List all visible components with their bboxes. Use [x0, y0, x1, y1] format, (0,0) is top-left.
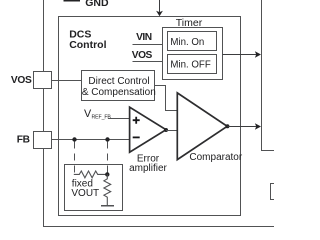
svg-text:Comparator: Comparator: [189, 152, 242, 163]
svg-text:amplifier: amplifier: [129, 163, 167, 174]
svg-text:Min. OFF: Min. OFF: [170, 59, 210, 70]
svg-text:VOUT: VOUT: [71, 188, 99, 199]
svg-text:GND: GND: [85, 0, 109, 9]
svg-text:Control: Control: [69, 39, 106, 51]
svg-text:Direct Control: Direct Control: [88, 76, 149, 87]
svg-text:VOS: VOS: [132, 50, 153, 61]
svg-text:VIN: VIN: [136, 32, 152, 43]
svg-text:VOS: VOS: [11, 75, 32, 86]
svg-text:& Compensation: & Compensation: [82, 87, 156, 98]
svg-text:REF_FB: REF_FB: [92, 115, 112, 121]
svg-text:FB: FB: [17, 135, 30, 146]
svg-text:Min. On: Min. On: [170, 37, 204, 48]
